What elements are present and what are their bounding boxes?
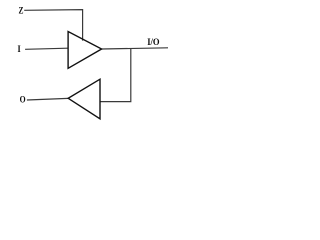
svg-text:I/O: I/O — [147, 37, 159, 47]
svg-text:O: O — [20, 95, 26, 105]
svg-text:I: I — [18, 44, 22, 54]
svg-text:Z: Z — [19, 5, 24, 15]
